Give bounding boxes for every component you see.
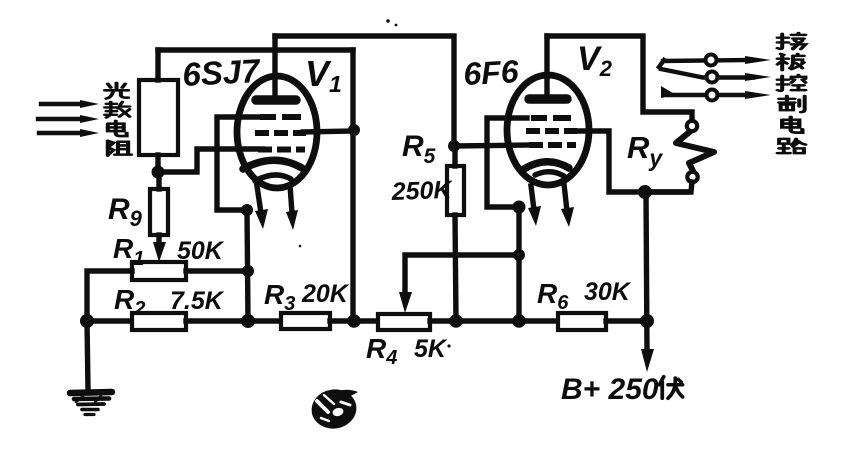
relay contact arm middle bbox=[661, 69, 771, 83]
svg-text:B+ 250: B+ 250 bbox=[561, 373, 659, 406]
wire rail R2 to R3 bbox=[186, 318, 281, 323]
wire R9 top lead bbox=[156, 172, 161, 189]
relay coil bottom terminal circle bbox=[687, 172, 697, 182]
scan specks bbox=[386, 19, 390, 23]
light arrow 3 bbox=[39, 129, 99, 137]
wire rail R6 to B+ node bbox=[606, 318, 647, 323]
figure number circled 5 bbox=[309, 386, 360, 432]
svg-text:250K: 250K bbox=[390, 176, 454, 206]
resistor R4 body (pot) bbox=[378, 314, 430, 330]
V2 grid row2 dashes (plate row) bbox=[526, 128, 577, 134]
svg-text:5K: 5K bbox=[414, 335, 448, 363]
junction dot x=248 on rail bbox=[241, 314, 255, 328]
R4 wiper arrowhead bbox=[399, 292, 412, 313]
V1 cathode arc upper bbox=[243, 160, 302, 169]
V1 top cap bar bbox=[256, 95, 296, 105]
svg-text:20K: 20K bbox=[301, 280, 350, 308]
relay armature link bbox=[659, 60, 664, 67]
wire R1 right lead to node bbox=[186, 268, 248, 273]
junction dot V2 cathode node bbox=[513, 201, 526, 214]
wire vertical x=353 from top rail down to bottom rail bbox=[350, 50, 355, 321]
wire photoresistor top lead bbox=[155, 50, 160, 80]
relay contact arm top bbox=[663, 55, 771, 66]
junction dot plate node bbox=[348, 124, 360, 136]
junction dot R5 top node bbox=[448, 140, 460, 152]
junction dot x=519 on rail bbox=[512, 314, 526, 328]
V1 grid row2 dashes (plate row) bbox=[255, 130, 306, 136]
V2 top cap bar bbox=[529, 94, 567, 104]
V1 bottom arrow right bbox=[286, 185, 298, 230]
wire rail R4 to R6 bbox=[430, 318, 558, 323]
junction dot R1 right node bbox=[242, 265, 254, 277]
V1 grid row3 dashes bbox=[258, 147, 305, 153]
junction dot V1 cathode node bbox=[241, 204, 253, 216]
wire V2 top cap lead bbox=[544, 36, 549, 95]
V2 cathode arc lower bbox=[535, 172, 564, 176]
wire V2 suppressor rectangle: row1 left, down, to cathode node bbox=[487, 118, 527, 207]
V2 grid row1 dashes bbox=[531, 115, 571, 121]
junction dot R4 tap node bbox=[513, 249, 525, 261]
label 光敏电阻 (vertical) bbox=[105, 83, 131, 156]
wire top link V1 cap to R5 top bbox=[275, 36, 454, 146]
relay coil top terminal circle bbox=[687, 121, 697, 131]
junction dot relay bottom node bbox=[638, 185, 652, 199]
V1 bottom arrow left bbox=[255, 186, 268, 229]
wire V2 grid feed from R5 node bbox=[454, 145, 530, 146]
svg-text:7.5K: 7.5K bbox=[170, 287, 225, 315]
svg-text:6SJ7: 6SJ7 bbox=[181, 52, 262, 93]
wire V1 suppressor: row1 left, down, to cathode node bbox=[217, 117, 262, 210]
junction dot x=353 on bottom rail bbox=[347, 314, 361, 328]
light arrow 2 bbox=[38, 115, 99, 123]
V2 bottom arrow right bbox=[561, 184, 574, 227]
wire node down to rail and B+ bbox=[646, 192, 647, 352]
bottom rail bbox=[87, 318, 132, 323]
relay contact arm bottom bbox=[661, 86, 771, 101]
wire R5 bottom lead to rail bbox=[455, 215, 456, 321]
V1 grid row1 dashes bbox=[260, 114, 301, 120]
wire ground drop bbox=[87, 321, 88, 389]
wire R4 wiper feed: left then down with arrow into R4 bbox=[405, 255, 519, 295]
wire photoresistor bottom lead bbox=[155, 155, 160, 170]
wire V2 plate lead right, down, to relay bottom rail bbox=[575, 131, 686, 192]
resistor R2 body bbox=[132, 313, 186, 330]
wire R5 top lead bbox=[452, 146, 457, 166]
wire top link V2 cap to relay coil bbox=[547, 36, 692, 120]
resistor R5 body bbox=[447, 166, 464, 215]
V2 bottom arrow left bbox=[528, 186, 541, 226]
V1 cathode arc lower bbox=[255, 175, 291, 181]
resistor R6 body bbox=[558, 313, 606, 330]
V2 grid row3 dashes bbox=[529, 142, 576, 148]
junction dot B+ rail node bbox=[640, 314, 654, 328]
relay Ry coil zigzag bbox=[676, 130, 714, 171]
wire cathode node down to R1 right and rail bbox=[247, 210, 248, 321]
V2 cathode arc upper bbox=[524, 162, 569, 169]
wire R9 bottom lead with wiper arrow into R1 bbox=[156, 235, 161, 244]
wire rail R3 to R4 bbox=[330, 318, 378, 323]
wire R1 left lead, down to rail bbox=[87, 271, 132, 321]
label 接被控制电路 (vertical) bbox=[778, 33, 806, 153]
light arrow 1 bbox=[41, 100, 99, 108]
resistor R3 body bbox=[281, 313, 330, 329]
wire V1 plate lead to node bbox=[303, 131, 353, 132]
wire grid feed: right, up, into V1 grid row3 bbox=[158, 149, 262, 172]
wire V1 top cap lead bbox=[272, 36, 277, 96]
wire relay coil bottom to node bbox=[645, 182, 692, 192]
label 伏 bbox=[659, 377, 682, 399]
resistor R1 body (pot) bbox=[132, 262, 186, 280]
svg-text:50K: 50K bbox=[177, 237, 225, 265]
junction dot R5 bottom on rail bbox=[449, 314, 463, 328]
B+ arrowhead bbox=[641, 349, 654, 372]
svg-text:6F6: 6F6 bbox=[462, 53, 519, 92]
op V1 envelope bbox=[237, 76, 317, 188]
wire V2 cathode node down through R4 tap node to rail bbox=[516, 207, 521, 321]
ground bbox=[70, 392, 112, 415]
tube V2 envelope bbox=[507, 75, 589, 185]
R9 wiper arrowhead bbox=[153, 242, 166, 262]
resistor R9 body bbox=[150, 189, 168, 235]
junction dot photoresistor bottom bbox=[152, 166, 165, 179]
photoresistor body bbox=[139, 80, 178, 155]
junction dot rail left node bbox=[80, 314, 94, 328]
svg-text:30K: 30K bbox=[584, 278, 632, 306]
wire top rail y=50 to x=353 bbox=[158, 47, 353, 52]
